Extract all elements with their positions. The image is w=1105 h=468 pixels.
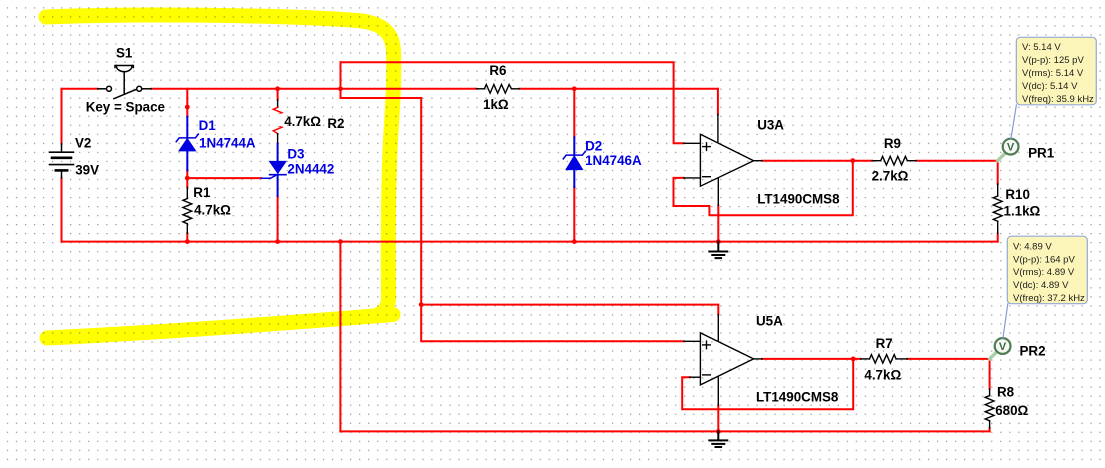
svg-text:4.7kΩ: 4.7kΩ <box>284 114 321 129</box>
svg-text:2N4442: 2N4442 <box>287 162 334 177</box>
svg-text:V(dc): 5.14 V: V(dc): 5.14 V <box>1022 81 1078 92</box>
svg-text:D1: D1 <box>199 118 217 133</box>
node D2 top <box>572 86 577 91</box>
SCR D3 <box>261 144 286 196</box>
svg-text:V(dc): 4.89 V: V(dc): 4.89 V <box>1013 280 1069 291</box>
probe PR2 <box>990 304 1011 359</box>
zener diode D1 <box>176 117 198 171</box>
wire: left vertical down to bottom rail <box>339 242 341 432</box>
op-amp U3A <box>684 115 762 206</box>
svg-text:D2: D2 <box>585 139 602 154</box>
wire: U3A V- pin to rail <box>717 206 719 242</box>
svg-text:V2: V2 <box>75 136 91 151</box>
wire: S1 rail from battery to R2/R6/U3A supply (node at y=88.8) <box>62 88 98 90</box>
measurement box PR2 <box>1007 236 1087 304</box>
wire: R7 right to R8 top corner <box>907 359 989 389</box>
svg-text:V(p-p): 125 pV: V(p-p): 125 pV <box>1022 55 1084 66</box>
svg-text:R1: R1 <box>193 185 211 200</box>
node branch x340 on S1 rail <box>338 86 343 91</box>
ground (U5A) <box>709 431 727 447</box>
wire: bottom ground rail <box>340 430 989 432</box>
switch S1 <box>98 66 152 99</box>
svg-text:R8: R8 <box>997 385 1015 400</box>
svg-text:1N4744A: 1N4744A <box>199 136 256 151</box>
wire: S1 right to R6 left <box>151 88 476 90</box>
svg-text:V(rms): 5.14 V: V(rms): 5.14 V <box>1022 68 1084 79</box>
svg-text:V: V <box>1007 142 1015 154</box>
svg-text:V(freq): 35.9 kHz: V(freq): 35.9 kHz <box>1022 94 1094 105</box>
svg-text:1kΩ: 1kΩ <box>483 97 509 112</box>
svg-text:R2: R2 <box>327 116 344 131</box>
svg-text:V(p-p): 164 pV: V(p-p): 164 pV <box>1013 254 1075 265</box>
svg-text:V: V <box>999 341 1007 353</box>
svg-text:Key = Space: Key = Space <box>86 100 165 115</box>
yellow highlighter stroke <box>46 15 394 338</box>
svg-text:D3: D3 <box>287 146 304 161</box>
wire: R1 bottom lead <box>186 233 188 241</box>
svg-text:S1: S1 <box>116 46 133 61</box>
svg-text:4.7kΩ: 4.7kΩ <box>864 368 901 383</box>
svg-text:39V: 39V <box>75 162 99 177</box>
wire: U3A output to R9 <box>762 160 872 162</box>
wire: U5A V- pin to bottom rail <box>717 405 719 431</box>
svg-text:680Ω: 680Ω <box>995 403 1028 418</box>
node R2 top <box>275 86 280 91</box>
node U3A gnd on rail <box>716 239 721 244</box>
node U3A feedback on output <box>850 158 855 163</box>
svg-text:V: 5.14 V: V: 5.14 V <box>1022 42 1061 53</box>
wire: D1/R1 node to D3 gate <box>187 177 261 179</box>
svg-text:R10: R10 <box>1005 187 1030 202</box>
svg-text:1.1kΩ: 1.1kΩ <box>1004 204 1041 219</box>
svg-text:LT1490CMS8: LT1490CMS8 <box>757 192 840 207</box>
wire: D1 top lead <box>186 89 188 117</box>
wire: U3A supply pin red part <box>717 89 719 115</box>
node D2 bottom on rail <box>572 239 577 244</box>
svg-text:4.7kΩ: 4.7kΩ <box>194 203 231 218</box>
node U5A supply branch <box>419 302 424 307</box>
wire: D2 bottom lead <box>573 187 575 242</box>
resistor R2 (red zigzag, middle hidden by label halo) <box>270 100 284 144</box>
svg-text:1N4746A: 1N4746A <box>585 153 642 168</box>
wire: R8 bottom lead <box>989 428 991 431</box>
svg-text:V: 4.89 V: V: 4.89 V <box>1013 242 1052 253</box>
svg-text:R6: R6 <box>489 63 506 78</box>
wire: D1 bottom to R1 top <box>186 170 188 187</box>
svg-text:V(rms): 4.89 V: V(rms): 4.89 V <box>1013 267 1075 278</box>
node R1 bottom on rail <box>185 239 190 244</box>
wire: R10 bottom lead <box>997 234 999 242</box>
wire: battery top lead <box>61 89 63 144</box>
resistor R8 (vertical zigzag) <box>985 389 994 428</box>
wire: U3A feedback loop <box>674 161 853 216</box>
svg-text:V(freq): 37.2 kHz: V(freq): 37.2 kHz <box>1013 293 1085 304</box>
node D3 bottom on rail <box>275 239 280 244</box>
resistor R10 (vertical zigzag) <box>993 184 1002 234</box>
wire: long vertical to U5A + input <box>421 98 684 341</box>
wire: U5A feedback loop <box>682 359 853 409</box>
svg-text:R9: R9 <box>884 136 901 151</box>
node U5A gnd on bottom rail <box>716 429 721 434</box>
svg-text:U5A: U5A <box>756 314 783 329</box>
svg-text:2.7kΩ: 2.7kΩ <box>872 169 909 184</box>
svg-text:LT1490CMS8: LT1490CMS8 <box>756 390 839 405</box>
svg-text:R7: R7 <box>876 336 893 351</box>
svg-text:PR2: PR2 <box>1020 343 1046 358</box>
svg-text:U3A: U3A <box>757 117 784 132</box>
probe PR1 <box>998 105 1019 161</box>
resistor R9 (horizontal zigzag) <box>872 156 916 165</box>
ground (U3A) <box>709 242 727 259</box>
wire: battery bottom lead <box>61 178 63 242</box>
wire: vertical branch at x=340.5 from top rail through S1 rail <box>341 62 422 98</box>
wire: D3 cathode to ground rail <box>277 196 279 242</box>
node D1/R1/gate <box>185 176 190 181</box>
wire: D2 top lead <box>573 89 575 138</box>
zener diode D2 <box>563 137 585 187</box>
resistor R6 (horizontal zigzag) <box>477 85 520 94</box>
measurement box PR1 <box>1016 37 1096 105</box>
wire: R6 right to U3A supply corner <box>519 88 718 90</box>
op-amp U5A <box>684 315 762 406</box>
wire: R9 right to R10 top corner <box>916 161 997 184</box>
wire: top rail to U3A + input <box>341 62 684 143</box>
svg-text:PR1: PR1 <box>1028 145 1055 160</box>
wire: mid ground rail <box>62 241 998 243</box>
node x340 on rail <box>338 239 343 244</box>
wire: U5A output to R7 <box>762 358 861 360</box>
resistor R7 (horizontal zigzag) <box>861 355 908 364</box>
wire: U5A supply branch <box>421 305 718 315</box>
node dot on D1 top lead <box>185 105 190 110</box>
node U5A feedback on output <box>851 357 856 362</box>
battery V2 <box>50 144 74 178</box>
wire: R2 top lead <box>277 89 279 100</box>
resistor R1 (vertical zigzag) <box>183 187 192 233</box>
